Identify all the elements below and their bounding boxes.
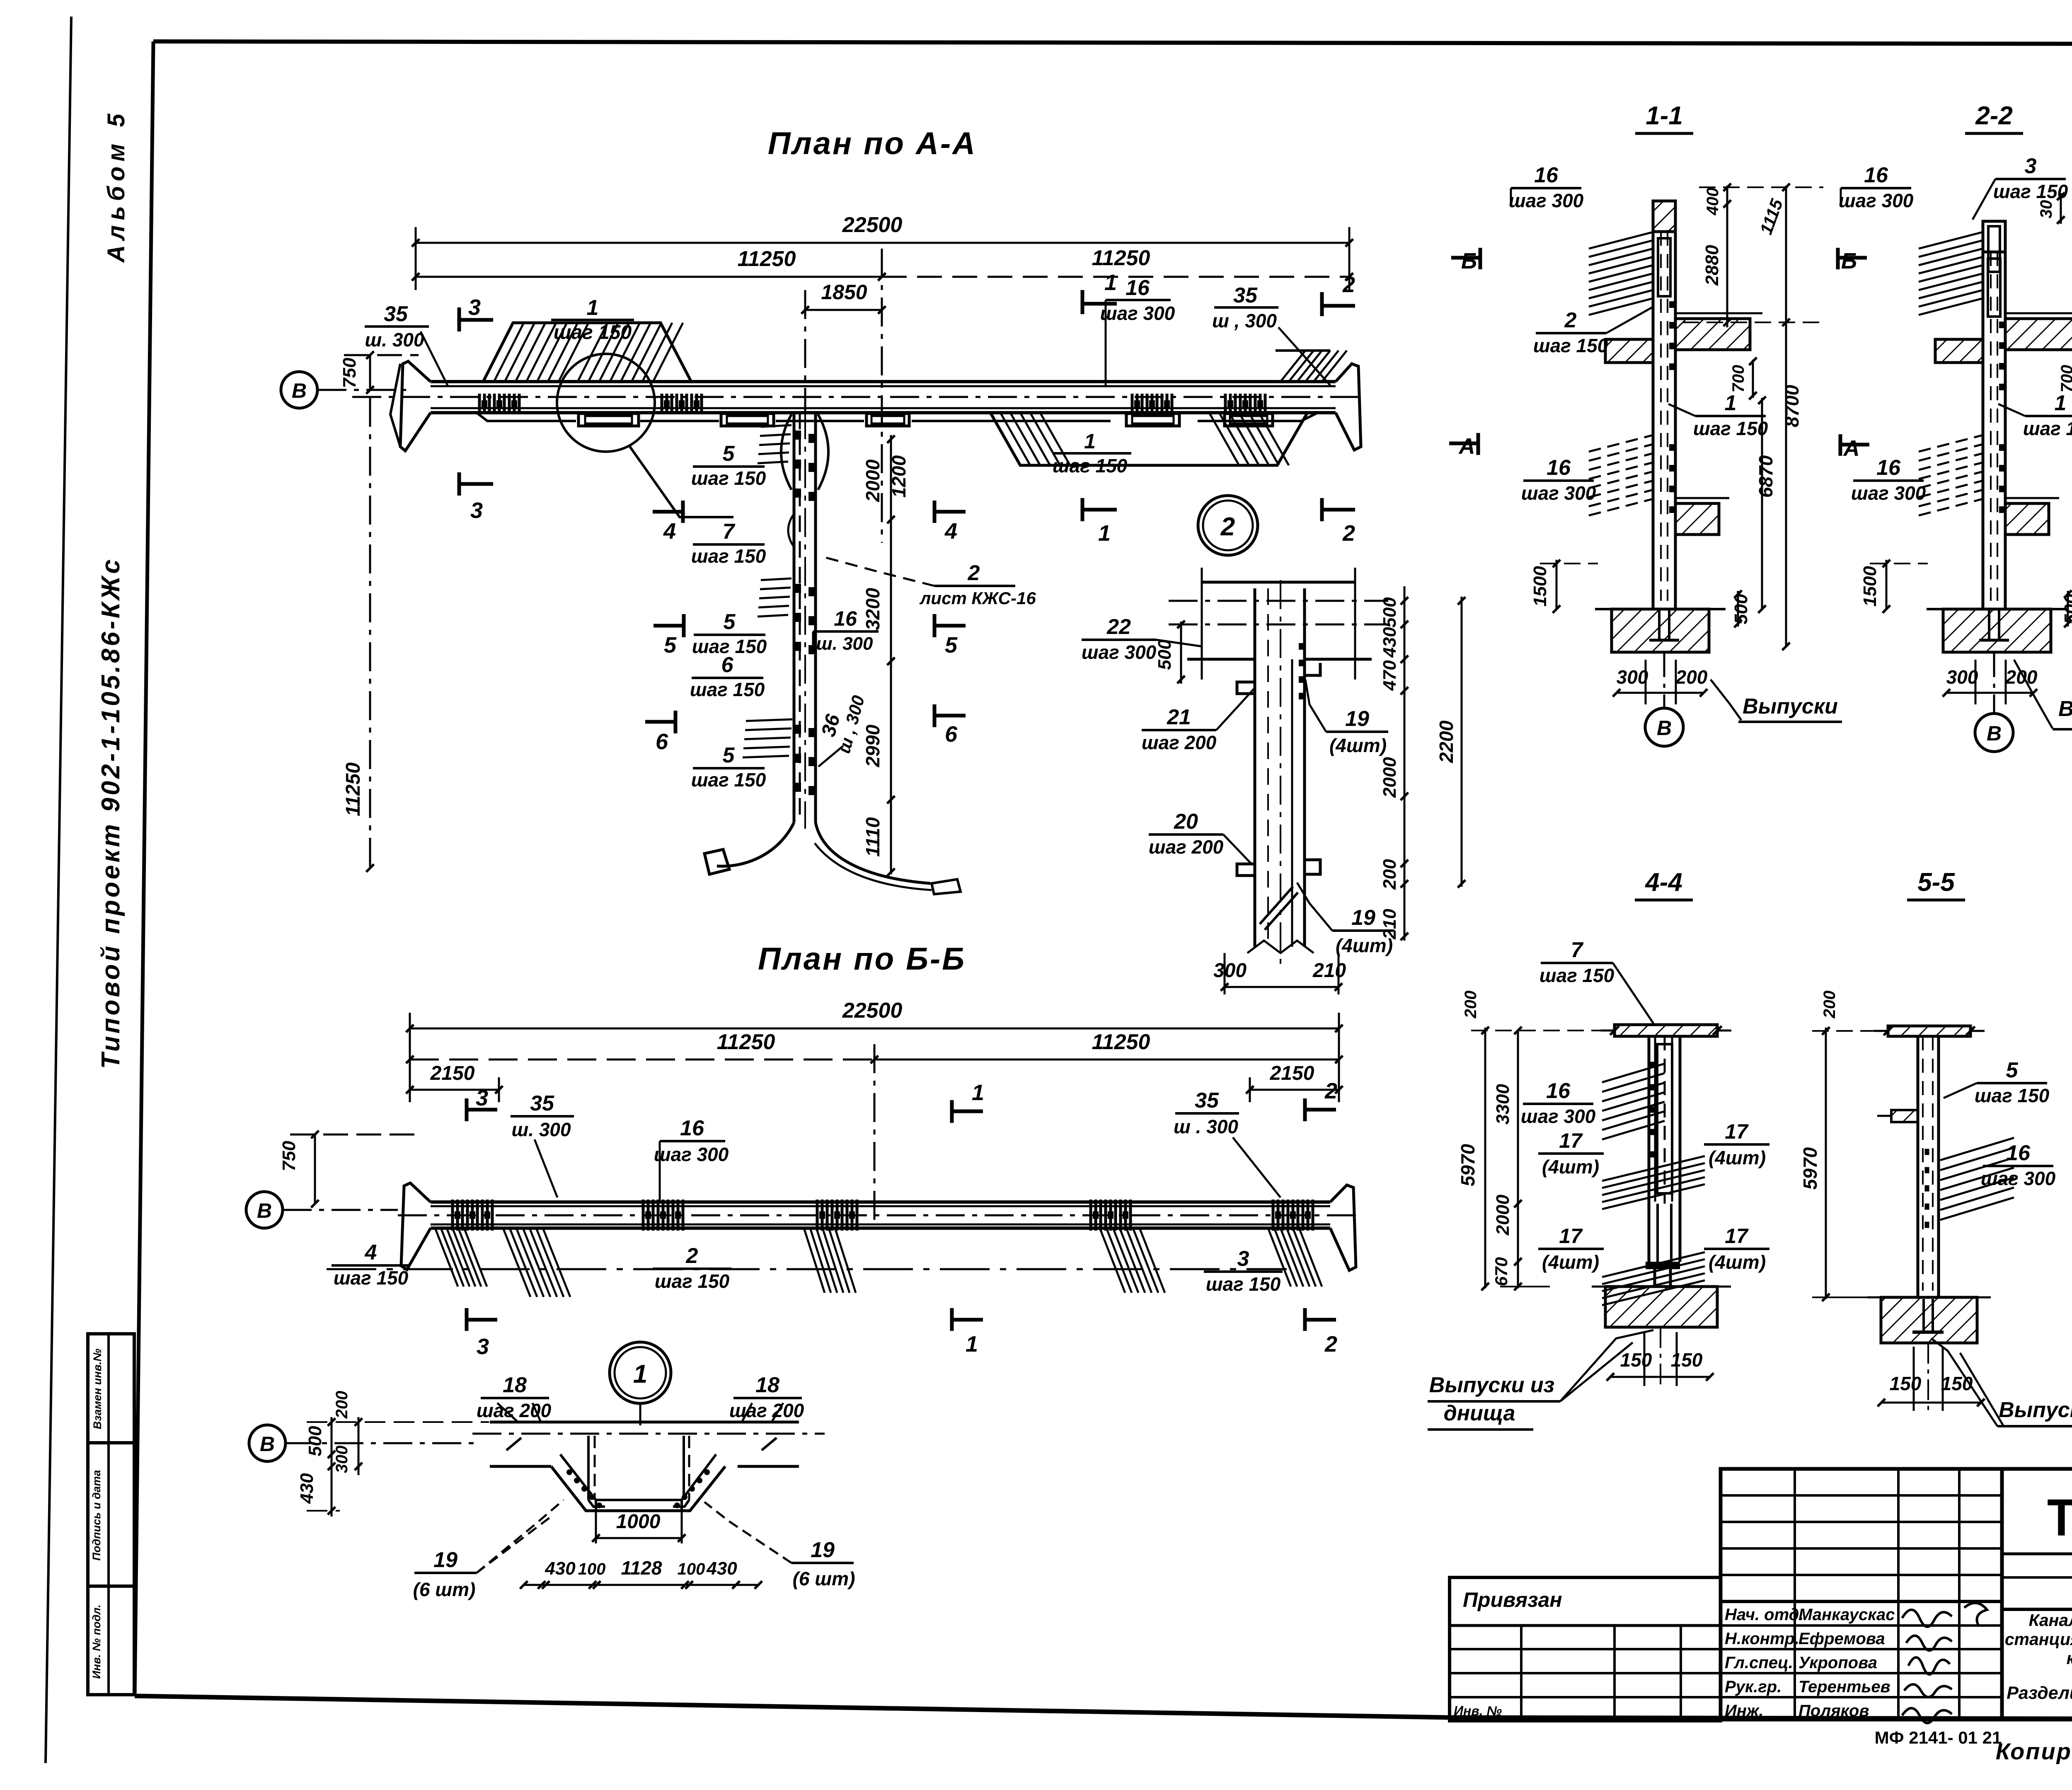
svg-text:22500: 22500 [842, 999, 903, 1023]
section mark 3 bottom plan B-B [465, 1308, 469, 1331]
section 4-4 top slab [1615, 1025, 1717, 1036]
section mark 5 right [933, 614, 937, 637]
svg-text:Выпуски из: Выпуски из [1429, 1373, 1554, 1397]
plan A-A lower ledge right [912, 420, 1111, 422]
svg-text:шаг 150: шаг 150 [691, 769, 766, 791]
plan A-A centerline [881, 249, 883, 543]
svg-text:шаг 300: шаг 300 [1981, 1168, 2056, 1189]
svg-text:1500: 1500 [1860, 566, 1880, 607]
svg-text:4: 4 [663, 519, 676, 544]
section 1-1 bottom dims [1617, 692, 1704, 694]
svg-text:6: 6 [656, 729, 668, 754]
svg-text:5-5: 5-5 [1917, 868, 1955, 897]
svg-text:750: 750 [339, 358, 360, 388]
svg-text:(4шт): (4шт) [1542, 1251, 1599, 1273]
dim 11250 right plan A-A [882, 276, 1349, 278]
svg-text:шаг 150: шаг 150 [1693, 418, 1768, 439]
svg-text:2000: 2000 [1493, 1195, 1513, 1236]
svg-text:(4шт): (4шт) [1709, 1251, 1766, 1273]
plan A-A lower ledge left [439, 413, 576, 421]
svg-text:Выпуски: Выпуски [1743, 694, 1838, 718]
vertical wall loop top [781, 414, 792, 490]
svg-text:1128: 1128 [621, 1557, 662, 1579]
section mark 1 bottom plan A-A [1081, 498, 1084, 521]
section 2-2 axis mark V [1975, 714, 2013, 752]
svg-text:1: 1 [1098, 521, 1111, 546]
svg-text:19: 19 [1345, 707, 1369, 731]
left attachment table [1450, 1577, 1721, 1721]
section mark 2 bottom plan A-A [1320, 498, 1324, 521]
detail mark 2 circle [1198, 496, 1258, 555]
svg-text:1-1: 1-1 [1646, 102, 1683, 130]
svg-text:Терентьев: Терентьев [1798, 1678, 1890, 1696]
svg-text:16: 16 [2006, 1141, 2031, 1165]
svg-text:шаг 150: шаг 150 [655, 1270, 730, 1292]
section 2-2 wall dowels [1988, 609, 1990, 640]
svg-text:100: 100 [678, 1560, 705, 1578]
section 1-1 axis mark V [1645, 708, 1683, 746]
section 1-1 upper left slab stub [1605, 339, 1653, 363]
svg-text:11250: 11250 [1092, 1030, 1150, 1054]
svg-text:20: 20 [1174, 810, 1198, 834]
svg-text:1: 1 [587, 296, 599, 320]
plan B-B splice clusters [451, 1200, 454, 1231]
detail mark 1 circle [610, 1342, 671, 1403]
svg-text:Инж.: Инж. [1725, 1702, 1764, 1720]
svg-text:11250: 11250 [738, 247, 796, 271]
svg-text:коллектора ~ 5,5м: коллектора ~ 5,5м [2067, 1649, 2072, 1668]
plan A-A wall band [400, 361, 431, 451]
svg-text:шаг 300: шаг 300 [1521, 482, 1596, 504]
svg-text:300: 300 [1617, 666, 1648, 688]
vertical wall hatch wedges [761, 425, 792, 427]
section 2-2 dim 500 right [2067, 591, 2069, 626]
svg-text:5: 5 [724, 610, 736, 634]
svg-text:35: 35 [384, 302, 408, 326]
plan B-B rebar fans below band [435, 1228, 458, 1287]
dim 22500 plan B-B [410, 1028, 1339, 1030]
signature squiggles [1902, 1610, 1952, 1627]
section 5-5 left slab stub [1891, 1110, 1918, 1122]
detail 2 bottom dim [1225, 986, 1339, 988]
svg-text:Выпуски: Выпуски [1999, 1398, 2072, 1422]
section 2-2 top block [1983, 221, 2005, 252]
detail 2 right dim chain outer [1461, 597, 1463, 887]
section 1-1 upper left rebar fan [1589, 232, 1653, 249]
svg-text:шаг 300: шаг 300 [1100, 302, 1175, 324]
svg-text:днища: днища [1444, 1401, 1515, 1425]
svg-text:17: 17 [1725, 1224, 1749, 1248]
svg-text:А: А [1458, 434, 1475, 459]
plan A-A band splice clusters [478, 394, 481, 414]
svg-text:2: 2 [1324, 1079, 1337, 1103]
svg-text:19: 19 [811, 1538, 835, 1562]
title block signature table [1721, 1494, 2002, 1497]
svg-text:2150: 2150 [430, 1062, 475, 1084]
section 5-5 fan right [1940, 1138, 2014, 1160]
detail 2 wall rebar marks [1299, 643, 1304, 650]
svg-text:(4шт): (4шт) [1709, 1147, 1766, 1168]
dim 11250 left plan B-B [410, 1059, 874, 1061]
svg-text:150: 150 [1671, 1349, 1703, 1371]
svg-text:А: А [1843, 436, 1860, 461]
svg-text:1110: 1110 [862, 817, 884, 857]
svg-text:500: 500 [1380, 597, 1400, 628]
svg-text:Выпуски из днища: Выпуски из днища [2058, 697, 2072, 721]
section 4-4 lower fan 17 [1602, 1252, 1705, 1277]
svg-text:шаг 200: шаг 200 [729, 1400, 804, 1421]
dim 750 plan B-B [314, 1134, 316, 1204]
svg-text:4: 4 [365, 1241, 377, 1265]
svg-text:Взамен инв.№: Взамен инв.№ [91, 1349, 104, 1430]
svg-text:2: 2 [686, 1244, 698, 1268]
section mark 4 left [681, 501, 685, 523]
svg-text:150: 150 [1890, 1373, 1922, 1394]
svg-text:1850: 1850 [821, 281, 867, 304]
svg-text:22: 22 [1106, 615, 1131, 639]
section 4-4 inner splice [1657, 1044, 1672, 1193]
svg-text:2990: 2990 [862, 724, 884, 767]
svg-text:7: 7 [1571, 938, 1584, 962]
svg-text:Альбом 5: Альбом 5 [103, 109, 130, 263]
section 2-2 upper left rebar fan [1919, 232, 1983, 249]
svg-text:5: 5 [2006, 1058, 2019, 1082]
detail 2 right dim chain inner [1404, 586, 1406, 941]
section 2-2 footing [1943, 609, 2051, 652]
svg-text:Укропова: Укропова [1798, 1654, 1877, 1672]
svg-text:35: 35 [1233, 283, 1258, 307]
detail 2 lower bracket [1237, 864, 1255, 876]
svg-text:6870: 6870 [1755, 455, 1777, 498]
svg-text:16: 16 [1546, 1079, 1571, 1103]
detail 2 break line [1247, 941, 1314, 953]
svg-text:500: 500 [305, 1426, 325, 1456]
section 2-2 upper left slab stub [1935, 339, 1983, 363]
section 2-2 axis line to V [1993, 652, 1995, 714]
svg-text:430: 430 [1380, 627, 1400, 658]
section 5-5 wall dowel [1922, 1299, 1925, 1332]
svg-text:8700: 8700 [1781, 385, 1803, 427]
section 5-5 wall [1917, 1036, 1920, 1297]
svg-text:ш. 300: ш. 300 [816, 634, 874, 654]
drawing frame [153, 41, 2072, 44]
dim 2150 left plan B-B [410, 1089, 499, 1091]
svg-text:700: 700 [2058, 365, 2072, 393]
svg-text:шаг 150: шаг 150 [691, 467, 766, 489]
plan A-A anchor plate 2 [721, 414, 774, 426]
svg-text:5: 5 [945, 633, 958, 658]
detail 1 break marks [506, 1438, 521, 1450]
section mark 1 bottom plan B-B [950, 1308, 954, 1331]
svg-text:30: 30 [2037, 200, 2055, 219]
svg-text:Ефремова: Ефремова [1798, 1630, 1885, 1648]
section 5-5 top slab [1888, 1026, 1970, 1036]
svg-text:Гл.спец.: Гл.спец. [1725, 1654, 1793, 1672]
svg-text:2: 2 [1342, 272, 1355, 297]
dim 1850 plan A-A [805, 309, 882, 311]
detail 1 bottom dim chain [524, 1584, 758, 1586]
svg-text:2: 2 [1342, 521, 1355, 546]
svg-text:В: В [1657, 716, 1672, 740]
svg-text:План по Б-Б: План по Б-Б [758, 941, 966, 977]
section 4-4 left dim chain [1484, 1028, 1486, 1288]
section 2-2 inner splice rect [1988, 259, 2000, 317]
svg-text:Манкаускас: Манкаускас [1798, 1606, 1895, 1624]
svg-text:шаг 300: шаг 300 [1839, 190, 1914, 211]
section 1-1 dim 1500 left [1556, 560, 1558, 609]
svg-text:шаг 150: шаг 150 [1053, 455, 1128, 477]
detail 2 left dim 500 [1180, 622, 1182, 684]
svg-text:ш . 300: ш . 300 [1174, 1116, 1238, 1137]
svg-text:470: 470 [1380, 660, 1400, 691]
section 2-2 bottom dims [1946, 692, 2033, 694]
svg-text:шаг 200: шаг 200 [1142, 732, 1217, 753]
svg-text:3: 3 [1237, 1247, 1249, 1271]
section 4-4 bottom dims [1610, 1376, 1710, 1378]
section mark 2 top plan A-A [1320, 292, 1324, 316]
svg-text:1: 1 [2055, 391, 2067, 415]
section 1-1 upper right slab [1675, 319, 1750, 350]
svg-text:2: 2 [1220, 513, 1235, 541]
svg-text:1115: 1115 [1756, 196, 1786, 237]
svg-text:200: 200 [2005, 666, 2038, 688]
svg-text:17: 17 [1725, 1120, 1749, 1143]
svg-text:19: 19 [1351, 906, 1375, 930]
dim 11250 vertical left plan A-A [369, 398, 371, 874]
svg-text:шаг 300: шаг 300 [1082, 641, 1157, 663]
svg-text:6: 6 [945, 722, 958, 747]
section 1-1 top block [1653, 201, 1675, 232]
sheet edge line left [46, 17, 71, 1763]
svg-text:3: 3 [477, 1334, 489, 1359]
svg-text:Нач. отд.: Нач. отд. [1725, 1606, 1803, 1624]
svg-text:шаг 150: шаг 150 [554, 322, 632, 343]
svg-text:шаг 150: шаг 150 [1533, 335, 1608, 356]
svg-text:200: 200 [1380, 859, 1400, 890]
svg-text:2000: 2000 [1380, 757, 1400, 798]
section 1-1 dim 500 right [1737, 591, 1739, 626]
dim 22500 plan A-A [416, 242, 1349, 244]
detail 1 rebar dots [566, 1469, 572, 1475]
svg-text:16: 16 [1534, 163, 1559, 187]
svg-text:11250: 11250 [717, 1030, 775, 1054]
svg-text:300: 300 [1946, 666, 1978, 688]
section 2-2 right dim chains [2060, 193, 2062, 224]
detail 1 slab and pit [490, 1421, 799, 1424]
svg-text:станция при глубине заложения: станция при глубине заложения [2005, 1630, 2072, 1649]
section 1-1 footing [1612, 609, 1709, 652]
section mark 1 top plan B-B [950, 1100, 954, 1123]
svg-text:19: 19 [433, 1548, 457, 1572]
detail 2 top slab [1202, 581, 1355, 584]
svg-text:шаг 150: шаг 150 [1993, 181, 2068, 202]
section mark 2 top plan B-B [1303, 1098, 1307, 1121]
svg-text:лист КЖС-16: лист КЖС-16 [919, 588, 1036, 608]
svg-text:Рук.гр.: Рук.гр. [1725, 1678, 1782, 1696]
plan A-A hatched zone lower right [990, 413, 1307, 465]
svg-text:2880: 2880 [1702, 245, 1722, 286]
svg-text:шаг 200: шаг 200 [1149, 836, 1224, 858]
svg-text:шаг 300: шаг 300 [1509, 190, 1584, 211]
detail 2 upper bracket [1237, 682, 1255, 694]
svg-text:(4шт): (4шт) [1542, 1156, 1599, 1178]
svg-text:1: 1 [1084, 430, 1096, 453]
svg-text:11250: 11250 [342, 762, 364, 816]
svg-text:22500: 22500 [842, 213, 903, 237]
leader vypuski iz dnishcha [2014, 660, 2053, 728]
svg-text:16: 16 [1126, 276, 1150, 300]
svg-text:Н.контр.: Н.контр. [1725, 1630, 1799, 1648]
svg-text:5970: 5970 [1457, 1144, 1479, 1186]
title block right part lines [2002, 1553, 2072, 1555]
svg-text:ш. 300: ш. 300 [511, 1119, 571, 1140]
section 4-4 footing [1605, 1287, 1717, 1327]
svg-text:16: 16 [1876, 456, 1901, 480]
svg-text:200: 200 [333, 1391, 351, 1419]
svg-text:Копировал Иванова: Копировал Иванова [1996, 1738, 2072, 1764]
vertical wall bottom flare [717, 822, 794, 866]
svg-text:5: 5 [664, 633, 677, 658]
svg-text:1: 1 [966, 1332, 978, 1357]
svg-text:670: 670 [1491, 1257, 1511, 1286]
svg-text:В: В [1987, 722, 2002, 745]
svg-text:В: В [260, 1432, 275, 1456]
svg-text:21: 21 [1167, 705, 1191, 729]
svg-text:Б: Б [1461, 249, 1477, 273]
section 4-4 wall bottom tee [1646, 1262, 1680, 1269]
svg-text:18: 18 [503, 1373, 527, 1397]
svg-text:35: 35 [530, 1091, 554, 1115]
section 5-5 bottom dims [1881, 1402, 1981, 1404]
svg-text:16: 16 [680, 1116, 704, 1140]
svg-text:3300: 3300 [1493, 1084, 1513, 1125]
svg-text:200: 200 [1462, 991, 1480, 1019]
detail 1 bottom dim 1000 [596, 1537, 682, 1539]
section 1-1 inner splice rect [1658, 238, 1670, 296]
svg-text:Привязан: Привязан [1463, 1588, 1562, 1611]
svg-text:430: 430 [706, 1558, 737, 1579]
section 1-1 wall [1652, 231, 1655, 609]
section 1-1 axis line to V [1663, 652, 1665, 708]
svg-text:2: 2 [1564, 308, 1577, 332]
svg-text:3: 3 [476, 1086, 488, 1110]
plan B-B bottom reference line [327, 1268, 1287, 1270]
plan A-A vertical wall [793, 413, 796, 822]
svg-text:3200: 3200 [862, 588, 884, 630]
plan A-A anchor plate 5 [1225, 414, 1273, 426]
dim chain vertical wall [890, 435, 892, 874]
section 1-1 lower left rebar fan [1589, 435, 1653, 452]
svg-text:6: 6 [721, 653, 734, 677]
svg-text:2150: 2150 [1270, 1062, 1314, 1084]
svg-text:210: 210 [1312, 960, 1346, 982]
svg-text:300: 300 [333, 1446, 351, 1473]
plan A-A hatch wedge near right flare [1280, 351, 1305, 382]
svg-text:4: 4 [944, 519, 957, 544]
svg-text:18: 18 [755, 1373, 779, 1397]
svg-text:шаг 150: шаг 150 [1975, 1085, 2050, 1106]
svg-text:(4шт): (4шт) [1336, 935, 1393, 956]
section 2-2 dim 1500 left [1886, 560, 1888, 609]
section mark 3 bottom plan A-A [457, 472, 461, 496]
axis mark V plan A-A [281, 372, 317, 408]
svg-text:шаг 300: шаг 300 [1851, 482, 1926, 504]
svg-text:(6 шт): (6 шт) [413, 1579, 476, 1600]
svg-text:1200: 1200 [888, 455, 910, 498]
section mark 4 right [933, 501, 937, 523]
svg-text:500: 500 [1731, 594, 1751, 624]
plan A-A anchor plate 4 [1126, 414, 1179, 426]
vertical wall splice clusters [794, 431, 801, 440]
left stamp table [88, 1334, 134, 1695]
section 1-1 right dim chains [1726, 186, 1728, 327]
svg-text:шаг 150: шаг 150 [690, 679, 765, 700]
svg-text:7: 7 [723, 520, 736, 544]
section 1-1 wall dowels [1658, 609, 1661, 640]
svg-text:шаг 150: шаг 150 [1206, 1273, 1281, 1295]
section 2-2 lower right slab [2005, 503, 2049, 535]
svg-text:шаг 150: шаг 150 [2023, 418, 2072, 439]
section 1-1 lower right slab [1675, 503, 1719, 535]
title block main frame [1721, 1469, 2072, 1720]
svg-text:ш , 300: ш , 300 [1212, 310, 1277, 331]
section mark 3 top plan A-A [457, 307, 461, 331]
svg-text:В: В [257, 1199, 272, 1222]
section mark 6 right [933, 704, 937, 727]
section mark 1 top plan A-A [1081, 290, 1084, 314]
svg-text:(4шт): (4шт) [1329, 735, 1387, 756]
svg-text:План по А-А: План по А-А [768, 126, 977, 161]
axis mark V plan B-B [246, 1192, 283, 1228]
dim 2150 right plan B-B [1250, 1089, 1339, 1091]
svg-text:430: 430 [297, 1473, 317, 1504]
svg-text:100: 100 [578, 1560, 606, 1578]
plan A-A anchor plate 1 [579, 414, 639, 426]
section 2-2 lower left rebar fan [1919, 435, 1983, 452]
detail circle 1 on band [557, 354, 655, 452]
svg-text:Поляков: Поляков [1798, 1702, 1869, 1720]
section mark 2 bottom plan B-B [1303, 1308, 1307, 1331]
svg-text:200: 200 [1675, 666, 1708, 688]
svg-text:5: 5 [723, 442, 735, 466]
svg-text:11250: 11250 [1092, 246, 1150, 270]
svg-text:200: 200 [1820, 991, 1839, 1019]
axis mark V detail 1 [249, 1425, 286, 1461]
svg-text:шаг 150: шаг 150 [334, 1267, 409, 1289]
svg-text:шаг 150: шаг 150 [691, 545, 766, 567]
svg-text:750: 750 [279, 1141, 299, 1171]
svg-text:500: 500 [1155, 639, 1175, 670]
detail 1 pit walls [587, 1436, 590, 1500]
section 2-2 wall [1982, 251, 1985, 609]
svg-text:16: 16 [1864, 163, 1888, 187]
svg-text:В: В [292, 379, 307, 402]
section mark 5 left [682, 614, 686, 637]
svg-text:700: 700 [1729, 365, 1748, 393]
section 2-2 upper right slab [2005, 319, 2072, 350]
svg-text:17: 17 [1559, 1129, 1583, 1152]
svg-text:1: 1 [633, 1360, 647, 1388]
svg-text:Инв. №: Инв. № [1454, 1703, 1502, 1718]
svg-text:Б: Б [1841, 249, 1857, 273]
section mark 6 left [674, 711, 678, 733]
svg-text:2-2: 2-2 [1975, 102, 2013, 130]
svg-text:35: 35 [1195, 1089, 1219, 1113]
svg-text:500: 500 [2061, 594, 2072, 624]
svg-text:16: 16 [834, 607, 857, 630]
svg-text:3: 3 [470, 498, 483, 523]
plan A-A anchor plate 3 [867, 414, 909, 426]
